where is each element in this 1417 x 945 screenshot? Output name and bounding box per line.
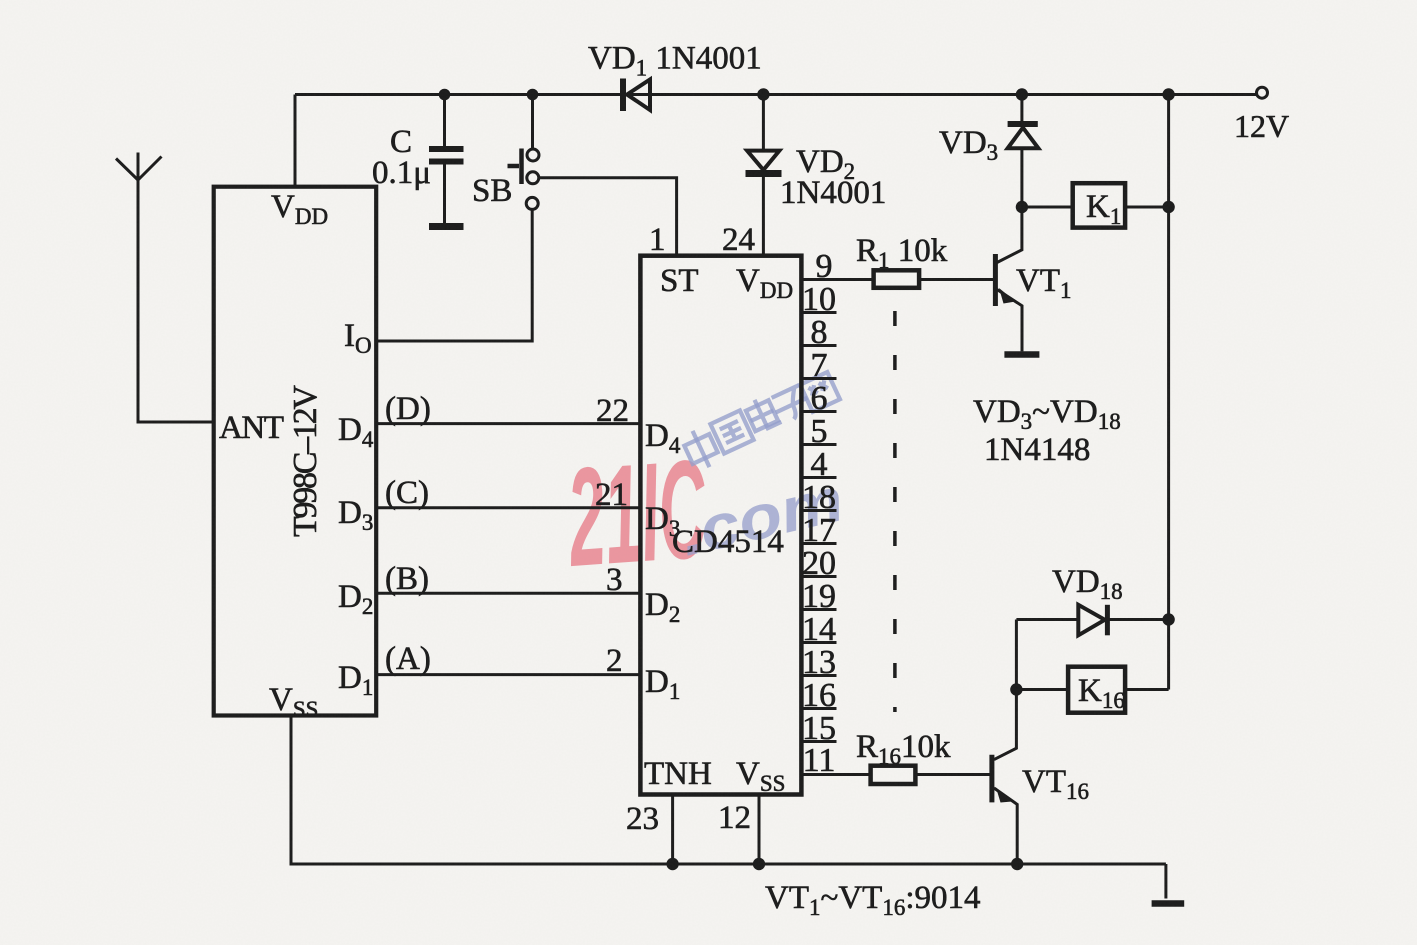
- wire SB bottom contact to IO pin: [376, 210, 532, 342]
- wire R1 to VT1 base: [919, 278, 994, 281]
- wire R16 to VT16 base: [915, 773, 990, 776]
- wire pin 12 drop: [758, 795, 761, 865]
- relay coil K1: [1073, 183, 1125, 227]
- ground under VT1 emitter: [1004, 351, 1039, 358]
- wire bottom bus to ground symbol: [1164, 864, 1167, 899]
- wire top +12V rail: [295, 93, 1257, 96]
- watermark chinese characters: [680, 372, 840, 473]
- wire VD3 from rail: [1020, 95, 1023, 122]
- pin ladder numbers: [802, 248, 836, 779]
- block U1 CD4514 decoder: [640, 256, 801, 795]
- wire VD2 branch from rail: [762, 95, 765, 151]
- diode VD2: [746, 151, 782, 174]
- wire VT1 collector: [997, 207, 1022, 263]
- wire pin 11 to R16: [801, 773, 870, 776]
- transistor VT1: [995, 254, 1015, 306]
- wire VSS drop and bottom ground bus: [291, 716, 1166, 865]
- transistor VT16: [992, 755, 1012, 803]
- relay coil K16: [1068, 667, 1125, 713]
- wire K16 box to right rail: [1125, 688, 1169, 691]
- wire K1 node to K1 box: [1022, 206, 1073, 209]
- wire antenna to ANT pin: [138, 180, 214, 422]
- diode VD1: [623, 79, 650, 112]
- wire K16 node to K16 box: [1016, 688, 1068, 691]
- dashed continuation line between R1 and R16: [893, 311, 897, 712]
- wire D4 row: [376, 422, 640, 425]
- wire VD2 to pin 24: [762, 177, 765, 256]
- wire D3 row: [376, 506, 640, 509]
- pushbutton SB contacts: [526, 149, 539, 209]
- wire right vertical rail: [1167, 95, 1170, 690]
- ground bottom right: [1152, 900, 1185, 907]
- wire VD18 cathode to right rail: [1109, 618, 1169, 621]
- terminal 12V: [1257, 87, 1268, 98]
- antenna: [116, 153, 162, 181]
- ground under capacitor C: [429, 223, 464, 230]
- block U2 T998C-12V receiver: [214, 187, 377, 716]
- wire VT16 emitter: [994, 788, 1017, 864]
- diode VD3: [1008, 124, 1039, 148]
- wire SB middle contact to ST pin 1: [539, 178, 677, 256]
- wire D1 row: [376, 673, 640, 676]
- wire VD3 to K1 node: [1020, 148, 1023, 207]
- wire VD18 anode side: [1016, 618, 1078, 621]
- WATERMARK: [562, 372, 850, 596]
- wire pin 9 to R1: [801, 278, 874, 281]
- wire D2 row: [376, 592, 640, 595]
- wire capacitor C drop: [443, 95, 446, 147]
- resistor R1: [874, 270, 920, 288]
- wire VDD drop from rail to T998C block: [294, 95, 297, 187]
- wire VT1 emitter to ground: [997, 290, 1022, 352]
- wire pin 23 drop: [671, 795, 674, 865]
- wire VT16 collector riser: [994, 620, 1016, 760]
- pushbutton SB actuator: [508, 149, 522, 185]
- pin ladder lines on CD4514 right edge: [801, 313, 836, 742]
- wire capacitor C to ground: [443, 165, 446, 224]
- resistor R16: [871, 766, 916, 784]
- wire SB drop from rail: [531, 95, 534, 149]
- wire K1 box to right rail: [1125, 206, 1169, 209]
- capacitor C plates: [429, 149, 464, 162]
- diode VD18: [1078, 605, 1107, 636]
